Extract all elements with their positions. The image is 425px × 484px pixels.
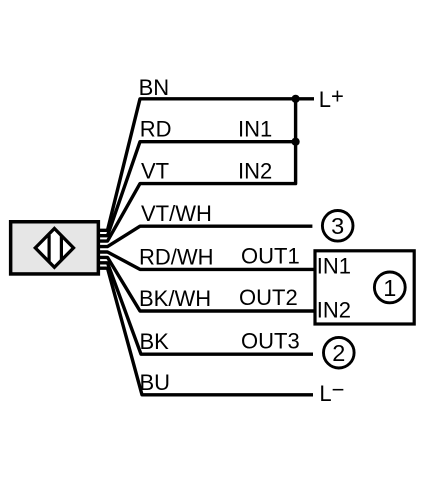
svg-text:L+: L+ [319, 84, 344, 112]
wire VT and vertical bus to L+ [98, 99, 296, 241]
svg-text:OUT3: OUT3 [241, 328, 300, 353]
wire BN [98, 99, 314, 231]
device box U1 [315, 251, 414, 324]
svg-text:BK: BK [140, 329, 170, 354]
wire BU [98, 268, 313, 395]
svg-text:BK/WH: BK/WH [139, 286, 211, 311]
svg-text:VT: VT [141, 158, 169, 183]
terminal circle 2 [324, 337, 355, 368]
svg-text:VT/WH: VT/WH [141, 201, 212, 226]
svg-text:IN2: IN2 [238, 158, 272, 183]
svg-text:BN: BN [139, 75, 170, 100]
svg-text:1: 1 [383, 275, 396, 301]
svg-text:BU: BU [140, 370, 171, 395]
junction dot RD/bus [292, 138, 300, 146]
svg-text:2: 2 [332, 340, 345, 366]
wire BK [98, 263, 313, 354]
terminal circle 1 [374, 272, 405, 303]
terminal circle 3 [322, 211, 353, 242]
wire VT/WH [98, 226, 312, 246]
svg-text:L−: L− [319, 377, 344, 406]
svg-text:IN1: IN1 [317, 253, 351, 278]
svg-text:IN2: IN2 [317, 298, 351, 323]
svg-text:IN1: IN1 [238, 116, 272, 141]
svg-text:RD/WH: RD/WH [139, 244, 214, 269]
svg-text:OUT2: OUT2 [239, 285, 298, 310]
wire RD [98, 142, 296, 236]
sensor body [11, 222, 99, 274]
wire BK/WH [98, 257, 315, 311]
svg-text:RD: RD [140, 116, 172, 141]
svg-text:OUT1: OUT1 [241, 244, 300, 269]
junction dot L+ [292, 95, 300, 103]
svg-text:3: 3 [331, 213, 344, 239]
sensor symbol (diamond) [35, 229, 73, 268]
wire RD/WH [98, 252, 315, 269]
